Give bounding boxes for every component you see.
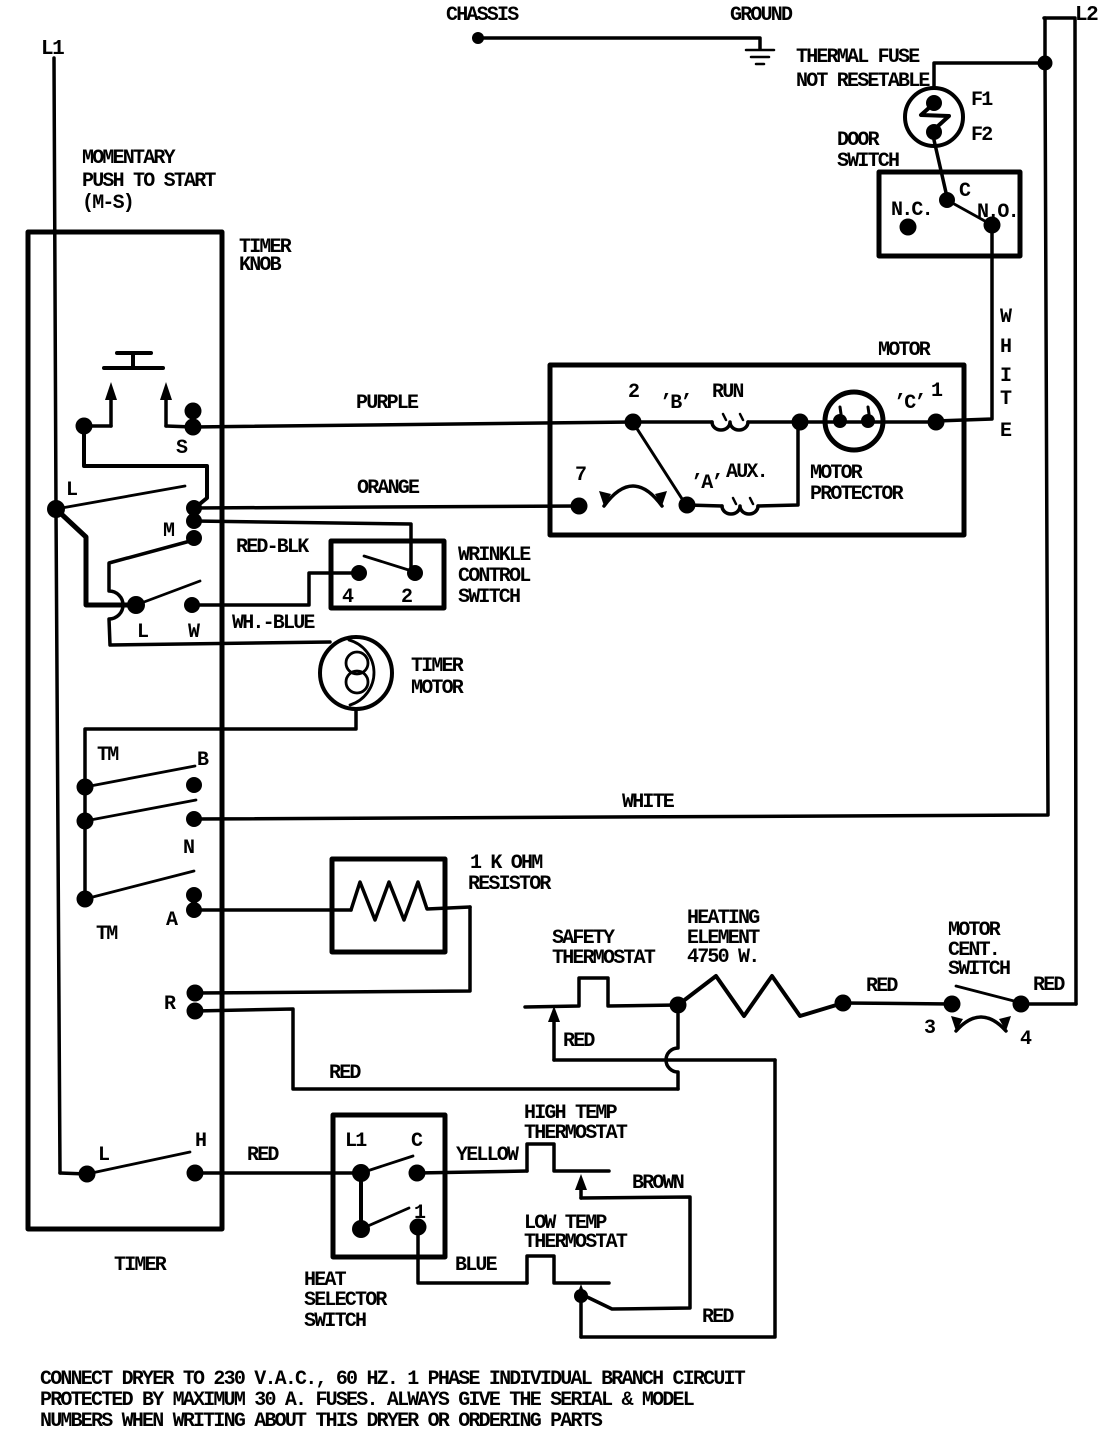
svg-text:1: 1 (414, 1202, 426, 1225)
svg-text:’B’: ’B’ (660, 392, 691, 415)
node L2 junction dot (1038, 56, 1053, 71)
wire L1 vertical (54, 58, 60, 1173)
wire F2 to door switch C (934, 140, 947, 197)
wire A to resistor (194, 908, 351, 912)
wire pivot thick path to L contact (56, 509, 130, 605)
switch blade door (947, 200, 992, 225)
node F1 dot (926, 95, 942, 111)
svg-text:MOTOR: MOTOR (411, 677, 464, 700)
svg-text:THERMOSTAT: THERMOSTAT (524, 1122, 628, 1145)
switch blade L contact (136, 581, 200, 605)
wire WH.-BLUE (192, 573, 359, 605)
node motor junction (792, 414, 809, 431)
switch blade TM-N (85, 800, 196, 821)
timer H contact dot (187, 1165, 204, 1182)
svg-text:MOMENTARY: MOMENTARY (82, 147, 176, 170)
svg-text:WHITE: WHITE (622, 791, 675, 814)
node heat C dot (409, 1165, 426, 1182)
svg-text:SWITCH: SWITCH (837, 150, 899, 173)
run coil (712, 422, 748, 430)
motor arc (604, 486, 662, 506)
svg-text:2: 2 (401, 586, 412, 609)
wire chassis to ground (478, 38, 760, 49)
wire junction vertical with hop (666, 1014, 678, 1089)
node A contact dots (186, 887, 202, 903)
svg-text:M: M (163, 520, 175, 543)
node M cluster dot mid (186, 513, 202, 529)
svg-text:F2: F2 (971, 124, 992, 147)
node M cluster dot top (186, 500, 202, 516)
svg-text:T: T (1000, 388, 1012, 411)
node L contact dot (127, 596, 145, 614)
node TM dot3 (77, 891, 94, 908)
svg-text:RED-BLK: RED-BLK (236, 536, 309, 559)
svg-text:TM: TM (96, 923, 118, 946)
node S contact dots (185, 403, 202, 420)
svg-text:L2: L2 (1075, 4, 1098, 27)
svg-text:TIMER: TIMER (114, 1254, 167, 1277)
push-to-start arrow left (109, 399, 113, 426)
svg-text:7: 7 (575, 464, 586, 487)
wire N.O. to motor line (936, 225, 992, 421)
svg-text:4: 4 (1020, 1028, 1032, 1051)
switch blade heat lower (361, 1208, 409, 1229)
svg-text:SELECTOR: SELECTOR (304, 1289, 387, 1312)
wire TM common vertical (83, 787, 87, 899)
motor protector circle (825, 392, 883, 450)
svg-text:CONTROL: CONTROL (458, 565, 530, 588)
svg-text:THERMOSTAT: THERMOSTAT (524, 1231, 628, 1254)
wire resistor return to R (195, 907, 470, 993)
node M contact dot (186, 530, 202, 546)
wire L2 vertical (1044, 18, 1076, 1004)
wire from push left dot to M cluster (84, 426, 207, 507)
svg-text:RUN: RUN (712, 381, 743, 404)
svg-text:RED: RED (329, 1062, 361, 1085)
node B contact (186, 777, 202, 793)
wire aux to junction (758, 424, 798, 506)
svg-text:L: L (137, 621, 148, 644)
svg-text:C: C (411, 1130, 423, 1153)
timer motor circle (320, 637, 392, 709)
switch blade pivot upper (56, 486, 185, 509)
safety thermostat arrow (552, 1016, 556, 1060)
wire heat L1 to lower (359, 1173, 363, 1229)
wire cent switch to L2 (1021, 1002, 1076, 1006)
node push left dot (76, 418, 93, 435)
svg-text:RED: RED (247, 1144, 279, 1167)
wire BROWN (581, 1197, 690, 1309)
heat selector switch box (333, 1115, 445, 1257)
svg-text:PROTECTOR: PROTECTOR (810, 483, 904, 506)
door switch box (879, 172, 1020, 256)
switch blade wrinkle (364, 556, 415, 572)
svg-text:(M-S): (M-S) (82, 192, 133, 215)
switch blade heat upper (361, 1156, 413, 1173)
svg-text:RED: RED (866, 975, 898, 998)
timer L contact dot (79, 1166, 96, 1183)
switch blade timer L-H (87, 1152, 190, 1174)
thermal fuse circle F (905, 88, 963, 146)
svg-text:ORANGE: ORANGE (357, 477, 420, 500)
svg-text:W: W (1000, 306, 1012, 329)
node C dot (939, 192, 955, 208)
wrinkle control switch box (331, 541, 444, 608)
svg-text:H: H (195, 1130, 206, 1153)
wire BLUE (418, 1227, 527, 1283)
heating element zigzag (678, 976, 843, 1016)
svg-text:1: 1 (931, 380, 943, 403)
node chassis dot (472, 32, 484, 44)
svg-text:NUMBERS WHEN WRITING ABOUT THI: NUMBERS WHEN WRITING ABOUT THIS DRYER OR… (40, 1410, 603, 1433)
node heating element right dot (835, 995, 852, 1012)
low temp thermostat symbol (527, 1256, 609, 1283)
svg-text:BROWN: BROWN (632, 1172, 684, 1195)
svg-text:A: A (166, 909, 178, 932)
node heat I dot (410, 1219, 427, 1236)
svg-text:THERMOSTAT: THERMOSTAT (552, 947, 656, 970)
timer box (28, 232, 222, 1229)
node wrinkle terminal 2 (407, 565, 423, 581)
ground symbol (746, 50, 774, 64)
svg-text:N.C.: N.C. (891, 199, 932, 222)
svg-text:L1: L1 (345, 1130, 367, 1153)
svg-text:E: E (1000, 420, 1012, 443)
timer motor coil (346, 652, 368, 674)
wire RED safety arrow to low temp (554, 1058, 775, 1062)
push-to-start button bar (104, 353, 163, 368)
switch blade TM-B (85, 766, 195, 787)
low temp arrow (579, 1294, 583, 1337)
wire heating element to cent switch (843, 1003, 952, 1004)
svg-text:CHASSIS: CHASSIS (446, 4, 519, 27)
wire L1 to L contact (60, 1173, 87, 1174)
wire ORANGE (194, 506, 579, 508)
svg-text:F1: F1 (971, 89, 993, 112)
node L pivot dot (47, 500, 65, 518)
svg-text:WRINKLE: WRINKLE (458, 544, 531, 567)
high temp arrow (579, 1184, 583, 1198)
safety thermostat symbol (525, 978, 678, 1007)
thermal fuse bolt (921, 107, 949, 126)
wire WHITE (194, 18, 1048, 819)
wire push button left (84, 424, 111, 428)
switch blade TM-A (85, 871, 194, 899)
svg-text:SWITCH: SWITCH (304, 1310, 366, 1333)
svg-text:BLUE: BLUE (455, 1254, 498, 1277)
svg-text:L: L (66, 479, 77, 502)
svg-text:RED: RED (1033, 974, 1065, 997)
wire RED H to heat selector (195, 1171, 361, 1175)
svg-text:MOTOR: MOTOR (810, 462, 863, 485)
svg-text:CONNECT DRYER TO 230 V.A.C., 6: CONNECT DRYER TO 230 V.A.C., 60 HZ. 1 PH… (40, 1368, 746, 1391)
push-to-start arrow right (164, 399, 168, 426)
svg-text:’A’: ’A’ (691, 472, 722, 495)
svg-text:C: C (959, 180, 971, 203)
svg-text:MOTOR: MOTOR (878, 339, 931, 362)
svg-text:AUX.: AUX. (726, 461, 767, 484)
node N contact (186, 811, 202, 827)
wire RED from R contact (195, 1009, 678, 1089)
wire push button right (166, 426, 193, 427)
node motor 7 (571, 498, 588, 515)
svg-text:SWITCH: SWITCH (948, 958, 1010, 981)
svg-text:N: N (183, 837, 194, 860)
wire motor main line (633, 420, 712, 424)
svg-text:3: 3 (924, 1017, 935, 1040)
svg-text:YELLOW: YELLOW (456, 1144, 519, 1167)
node R contact dots (187, 985, 204, 1002)
wire YELLOW (417, 1171, 527, 1173)
svg-text:S: S (176, 437, 188, 460)
svg-text:WH.-BLUE: WH.-BLUE (232, 612, 315, 635)
wire RED-BLK to wrinkle switch (194, 521, 415, 572)
node W contact dot (184, 597, 200, 613)
node low temp arrow dot (574, 1289, 588, 1303)
wire RED return to L2 (581, 1060, 775, 1337)
node motor 1 (928, 414, 945, 431)
svg-text:KNOB: KNOB (239, 254, 282, 277)
switch blade motor 2-A (634, 424, 686, 505)
node N.C. dot (900, 219, 917, 236)
svg-text:H: H (1000, 336, 1011, 359)
svg-text:L: L (98, 1144, 109, 1167)
svg-text:TIMER: TIMER (411, 655, 464, 678)
svg-text:PUSH TO START: PUSH TO START (82, 170, 216, 193)
node TM dot2 (77, 813, 94, 830)
svg-text:SWITCH: SWITCH (458, 586, 520, 609)
switch blade M contact (109, 540, 330, 645)
node motor 2 (625, 414, 642, 431)
svg-text:B: B (197, 749, 209, 772)
svg-text:RED: RED (702, 1306, 734, 1329)
svg-text:DOOR: DOOR (837, 129, 880, 152)
svg-text:2: 2 (628, 381, 639, 404)
svg-text:PROTECTED BY MAXIMUM 30 A. FUS: PROTECTED BY MAXIMUM 30 A. FUSES. ALWAYS… (40, 1389, 694, 1412)
svg-text:PURPLE: PURPLE (356, 392, 419, 415)
node heat lower-left dot (352, 1220, 370, 1238)
node heating element left dot (670, 997, 687, 1014)
node motor A (679, 497, 696, 514)
node TM dot1 (77, 779, 94, 796)
svg-text:’C’: ’C’ (894, 392, 925, 415)
wire timer motor to TM common (85, 709, 356, 787)
node wrinkle terminal 4 (351, 565, 367, 581)
svg-text:NOT RESETABLE: NOT RESETABLE (796, 70, 930, 93)
svg-text:RED: RED (563, 1030, 595, 1053)
svg-text:THERMAL FUSE: THERMAL FUSE (796, 46, 920, 69)
svg-text:TM: TM (97, 744, 119, 767)
svg-text:W: W (188, 621, 200, 644)
node F2 dot (926, 124, 942, 140)
node cent switch 4 (1013, 996, 1030, 1013)
resistor zigzag (351, 882, 470, 920)
node cent switch 3 (944, 996, 961, 1013)
aux coil (687, 505, 722, 506)
motor box (550, 365, 964, 535)
high temp thermostat symbol (527, 1144, 609, 1171)
node heat L1 dot (352, 1164, 370, 1182)
wire PURPLE (193, 422, 633, 427)
resistor box (332, 859, 445, 952)
node N.O. dot (984, 217, 1001, 234)
svg-text:RESISTOR: RESISTOR (468, 873, 551, 896)
svg-text:I: I (1000, 365, 1011, 388)
svg-text:1 K OHM: 1 K OHM (470, 852, 543, 875)
cent switch arc (956, 1017, 1006, 1031)
svg-text:4: 4 (342, 586, 354, 609)
motor protector dots (833, 414, 847, 428)
svg-text:4750 W.: 4750 W. (687, 946, 758, 969)
switch blade cent switch (956, 986, 1014, 1001)
wire thermal fuse to L2 (934, 63, 1045, 88)
svg-text:GROUND: GROUND (730, 4, 793, 27)
svg-text:R: R (164, 993, 176, 1016)
